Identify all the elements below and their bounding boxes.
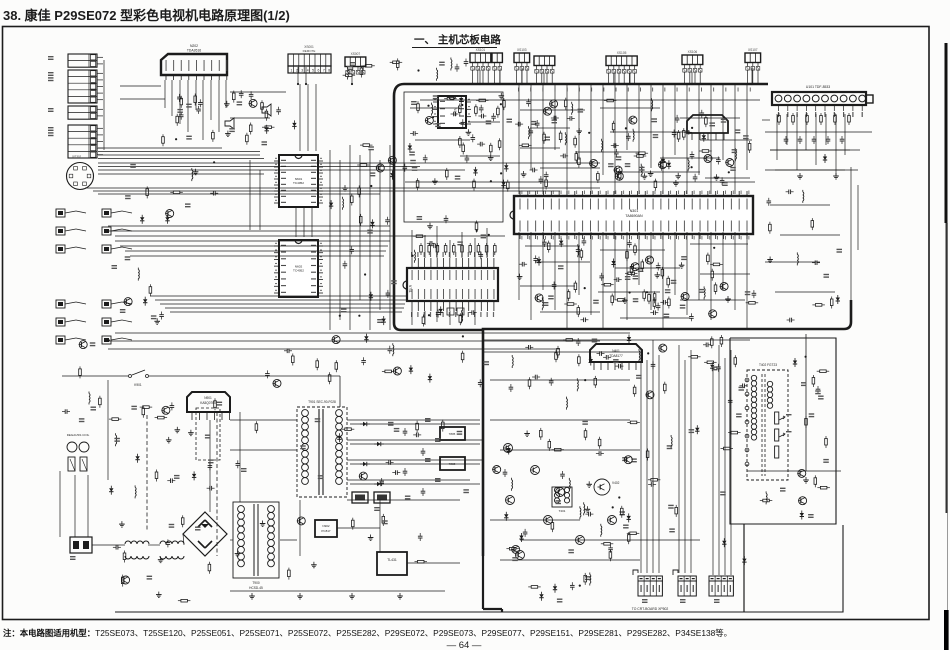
- resistor: [442, 420, 444, 423]
- capacitor: [532, 376, 535, 378]
- resistor: [699, 150, 702, 152]
- resistor: [654, 291, 656, 294]
- resistor: [578, 156, 580, 159]
- ground: [656, 272, 658, 275]
- capacitor: [660, 301, 663, 303]
- resistor: [597, 171, 599, 174]
- resistor: [170, 191, 173, 193]
- resistor: [182, 515, 184, 518]
- value label: [433, 95, 439, 96]
- transistor: [624, 456, 632, 464]
- capacitor: [786, 191, 789, 193]
- value label: [120, 309, 126, 310]
- wire: [164, 80, 166, 108]
- inductor: [687, 158, 689, 160]
- value label: [824, 274, 830, 275]
- resistor: [831, 297, 833, 300]
- junction: [579, 585, 581, 587]
- value label: [652, 118, 658, 119]
- capacitor: [691, 151, 693, 154]
- diode: [110, 486, 112, 489]
- svg-text:TO CRT-BOARD XP502: TO CRT-BOARD XP502: [632, 607, 669, 611]
- capacitor: [567, 117, 570, 119]
- resistor: [246, 133, 248, 136]
- junction: [521, 83, 523, 85]
- connector XS007 4pin: [345, 57, 366, 67]
- resistor: [459, 104, 461, 107]
- junction: [488, 234, 490, 236]
- wire: [698, 232, 700, 300]
- main board outline bottom right: [483, 300, 851, 556]
- transistor: [273, 379, 281, 387]
- wire: [483, 351, 640, 353]
- value label: [631, 458, 637, 459]
- wire: [530, 84, 532, 170]
- connector XS103 3pin: [514, 53, 530, 63]
- capacitor: [528, 99, 530, 102]
- capacitor: [62, 411, 65, 413]
- value label: [318, 475, 324, 476]
- wire XS106 drops: [684, 72, 686, 85]
- resistor CPU pull-up row: [453, 243, 455, 246]
- transistor: [646, 391, 654, 399]
- resistor: [462, 351, 464, 354]
- resistor: [162, 134, 164, 137]
- resistor: [667, 276, 669, 279]
- value label: [370, 172, 376, 173]
- value label: [368, 146, 374, 147]
- value label: [669, 528, 675, 529]
- wire: [115, 235, 505, 237]
- resistor: [563, 339, 566, 341]
- resistor: [360, 144, 363, 146]
- capacitor: [207, 487, 210, 489]
- inductor: [734, 148, 736, 150]
- inductor: [600, 524, 602, 526]
- capacitor: [519, 263, 522, 265]
- diode: [554, 584, 556, 587]
- resistor CPU pull-up row: [420, 243, 422, 246]
- wire: [98, 154, 260, 156]
- value label: [531, 121, 537, 122]
- value label: [486, 120, 492, 121]
- connector XS002 video: [68, 54, 97, 67]
- resistor: [627, 532, 630, 534]
- resistor hv bleeder: [805, 416, 807, 419]
- capacitor: [525, 346, 528, 348]
- wire: [347, 419, 480, 421]
- resistor: [634, 243, 636, 246]
- wire: [98, 169, 420, 171]
- resistor: [262, 126, 265, 128]
- resistor: [255, 421, 257, 424]
- resistor: [678, 130, 680, 133]
- ground: [769, 257, 771, 260]
- wire: [170, 311, 402, 313]
- diode: [837, 295, 839, 298]
- capacitor: [684, 131, 687, 133]
- resistor: [476, 99, 479, 101]
- wire: [230, 539, 233, 541]
- value label: [730, 167, 736, 168]
- wire: [225, 80, 227, 108]
- capacitor: [551, 117, 554, 119]
- wire: [108, 340, 600, 342]
- value label: [721, 119, 727, 120]
- svg-text:REMOTE: REMOTE: [303, 49, 316, 53]
- transistor: [726, 159, 734, 167]
- capacitor secondary filter: [422, 488, 424, 491]
- value label: [410, 160, 416, 161]
- ic N102 8pin: [438, 96, 466, 128]
- diode: [167, 215, 169, 218]
- capacitor: [445, 215, 447, 218]
- inductor: [342, 197, 344, 199]
- value label: [205, 435, 211, 436]
- wire: [369, 150, 371, 330]
- capacitor: [535, 255, 537, 258]
- resistor: [178, 600, 181, 602]
- value label: [367, 230, 373, 231]
- transistor: [124, 298, 132, 306]
- ground: [526, 431, 528, 434]
- diode secondary rectifier: [360, 423, 363, 425]
- value label: [736, 413, 742, 414]
- ground: [467, 129, 469, 132]
- resistor: [265, 109, 267, 112]
- capacitor: [729, 397, 731, 400]
- capacitor: [431, 245, 434, 247]
- svg-text:XS107: XS107: [748, 48, 758, 52]
- power switch K901: [129, 375, 132, 378]
- capacitor: [601, 273, 603, 276]
- resistor: [79, 366, 81, 369]
- left connector labels 1: [48, 72, 54, 73]
- diode: [628, 335, 630, 338]
- value label: [613, 359, 619, 360]
- capacitor: [180, 112, 182, 115]
- wire: [765, 261, 820, 263]
- wire: [230, 449, 297, 451]
- value label: [177, 109, 183, 110]
- resistor: [397, 58, 399, 61]
- wire: [686, 232, 688, 315]
- svg-text:TA8690AN: TA8690AN: [625, 214, 643, 218]
- value label: [130, 164, 136, 165]
- resistor: [99, 396, 101, 399]
- wire: [770, 149, 850, 151]
- wire: [535, 261, 590, 263]
- diode: [475, 167, 477, 170]
- wire: [379, 160, 381, 310]
- resistor: [580, 248, 582, 251]
- wire: [684, 360, 686, 573]
- speaker connector group 4: [102, 300, 111, 308]
- crt section divider: [743, 524, 745, 612]
- diode: [505, 163, 507, 166]
- ground: [650, 171, 652, 174]
- resistor: [721, 448, 724, 450]
- diode: [723, 538, 725, 541]
- wire: [115, 240, 390, 242]
- value label: [417, 216, 423, 217]
- wire tuner bus 3: [765, 169, 858, 171]
- junction: [479, 83, 481, 85]
- value label: [837, 249, 843, 250]
- svg-text:38. 康佳 P29SE072 型彩色电视机电路原理图(1/: 38. 康佳 P29SE072 型彩色电视机电路原理图(1/2): [3, 8, 290, 23]
- resistor tuner pull-up: [820, 113, 822, 116]
- capacitor tuner bypass: [785, 136, 787, 139]
- value label: [217, 402, 223, 403]
- capacitor: [703, 344, 706, 346]
- value label: [457, 431, 463, 432]
- capacitor: [424, 155, 426, 158]
- resistor: [343, 74, 346, 76]
- value label: [633, 298, 639, 299]
- resistor: [417, 101, 419, 104]
- wire: [722, 84, 724, 160]
- transistor: [535, 294, 543, 302]
- transistor video amp: [506, 496, 515, 505]
- ground: [677, 173, 679, 176]
- wire: [239, 412, 241, 502]
- wire: [424, 235, 426, 258]
- transistor: [799, 497, 807, 505]
- transistor: [249, 99, 257, 107]
- diode: [703, 133, 705, 136]
- value label: [411, 101, 417, 102]
- junction: [297, 83, 299, 85]
- ground: [429, 223, 431, 226]
- wire: [311, 207, 313, 237]
- junction: [500, 103, 502, 105]
- wire: [461, 232, 463, 258]
- wire: [130, 255, 384, 257]
- diode: [628, 513, 630, 516]
- resistor: [720, 335, 722, 338]
- value label: [382, 520, 388, 521]
- resistor: [634, 155, 637, 157]
- ground: [519, 274, 521, 277]
- wire: [171, 80, 173, 116]
- capacitor: [614, 279, 617, 281]
- resistor: [176, 114, 178, 117]
- wire: [530, 232, 532, 320]
- capacitor: [597, 353, 600, 355]
- resistor: [728, 432, 731, 434]
- junction: [476, 230, 478, 232]
- wire: [578, 232, 580, 295]
- svg-text:TL431: TL431: [387, 558, 397, 562]
- wire: [525, 245, 580, 247]
- inductor: [88, 392, 90, 394]
- ground: [227, 131, 229, 134]
- wire XS101 drops: [472, 70, 474, 85]
- ground: [158, 592, 160, 595]
- wire: [249, 160, 251, 230]
- diode: [141, 215, 143, 218]
- wire: [705, 177, 750, 179]
- transistor: [704, 155, 712, 163]
- capacitor: [673, 130, 675, 133]
- value label: [125, 256, 131, 257]
- junction: [728, 171, 730, 173]
- diode: [508, 446, 510, 449]
- connector XP501: [638, 576, 662, 581]
- diode: [541, 592, 543, 595]
- wire: [542, 232, 544, 290]
- capacitor: [718, 364, 720, 367]
- capacitor tuner bypass: [799, 136, 801, 139]
- wire: [148, 544, 160, 546]
- wire secondary rail: [350, 443, 480, 445]
- resistor: [619, 169, 621, 172]
- speaker connector group 1: [56, 209, 65, 217]
- resistor: [705, 115, 707, 118]
- wire: [165, 307, 404, 309]
- resistor: [413, 235, 416, 237]
- junction: [213, 161, 215, 163]
- wire: [359, 155, 361, 300]
- value label: [131, 406, 137, 407]
- capacitor: [451, 113, 454, 115]
- svg-text:1: 1: [291, 69, 293, 73]
- wire: [474, 238, 476, 258]
- junction: [543, 83, 545, 85]
- wire: [405, 181, 755, 183]
- capacitor: [603, 356, 606, 358]
- diode: [668, 160, 670, 163]
- wire: [602, 84, 604, 175]
- transistor: [332, 336, 340, 344]
- wire: [115, 332, 630, 334]
- ac connector XS901: [70, 537, 92, 553]
- diode: [429, 374, 431, 377]
- junction: [584, 287, 586, 289]
- wire: [125, 250, 386, 252]
- resistor CPU pull-up row: [469, 243, 471, 246]
- diode tuner agc: [824, 154, 826, 157]
- wire: [98, 193, 380, 195]
- diode damper VD402: [794, 358, 796, 361]
- mcu pin label: [455, 252, 456, 257]
- optocoupler N902 PC817: [315, 520, 337, 537]
- wire: [520, 285, 575, 287]
- wire: [107, 380, 109, 480]
- main board outline left: [394, 96, 483, 330]
- ground: [370, 535, 372, 538]
- value label: [815, 390, 821, 391]
- diode: [370, 292, 372, 295]
- capacitor: [178, 94, 180, 97]
- wire: [620, 317, 690, 319]
- diode: [144, 297, 146, 300]
- inductor: [541, 297, 543, 299]
- resistor: [543, 132, 545, 135]
- wire: [690, 243, 748, 245]
- capacitor: [611, 145, 614, 147]
- wire: [98, 162, 600, 164]
- resistor: [560, 131, 562, 134]
- value label: [112, 265, 118, 266]
- connector XS105 6pin: [606, 56, 637, 66]
- ground: [523, 171, 525, 174]
- wire: [92, 544, 125, 546]
- resistor CPU pull-up row: [445, 243, 447, 246]
- scan black bar right edge: [945, 43, 948, 223]
- resistor: [417, 178, 419, 181]
- ground: [121, 521, 123, 524]
- ground: [168, 437, 170, 440]
- resistor: [528, 586, 531, 588]
- connector XS001 7pin: [288, 54, 331, 66]
- svg-text:HCSD-45: HCSD-45: [249, 586, 263, 590]
- transistor: [798, 469, 806, 477]
- resistor: [557, 346, 559, 349]
- svg-text:TDA2616: TDA2616: [187, 49, 201, 53]
- diode: [696, 425, 698, 428]
- wire: [500, 559, 640, 561]
- ground: [344, 185, 346, 188]
- value label: [667, 445, 673, 446]
- resistor: [360, 214, 362, 217]
- wire: [103, 60, 105, 150]
- resistor: [335, 360, 337, 363]
- capacitor: [413, 434, 416, 436]
- resistor: [634, 385, 636, 388]
- wire: [490, 419, 630, 421]
- wire: [734, 84, 736, 194]
- op-amp N202 TDA2616: [161, 54, 227, 75]
- diode: [338, 433, 340, 436]
- wire: [543, 73, 545, 84]
- svg-text:T402 FGT23: T402 FGT23: [759, 363, 777, 367]
- capacitor: [344, 261, 346, 264]
- wire: [108, 348, 560, 350]
- wire: [449, 240, 451, 258]
- value label: [809, 413, 815, 414]
- mcu pin label: [474, 252, 475, 257]
- mcu pin label: [430, 252, 431, 257]
- wire: [468, 121, 500, 123]
- capacitor: [392, 472, 395, 474]
- resistor tuner pull-up: [792, 113, 794, 116]
- capacitor: [657, 263, 659, 266]
- wire: [410, 107, 460, 109]
- resistor: [109, 418, 112, 420]
- wire: [780, 234, 840, 236]
- inductor: [765, 491, 767, 493]
- value label: [147, 576, 153, 577]
- wire tuner bus 1: [765, 131, 872, 133]
- diode: [743, 556, 745, 559]
- capacitor: [284, 350, 287, 352]
- svg-text:N902: N902: [322, 524, 330, 528]
- wire: [638, 84, 640, 194]
- wire: [566, 232, 568, 329]
- inductor: [134, 485, 136, 487]
- transistor: [709, 310, 717, 318]
- wire: [850, 167, 852, 300]
- resistor tuner pull-up: [806, 113, 808, 116]
- value label: [568, 549, 574, 550]
- resistor: [555, 350, 557, 353]
- resistor: [316, 358, 318, 361]
- value label: [435, 438, 441, 439]
- ground: [644, 173, 646, 176]
- wire: [662, 84, 664, 194]
- resistor: [574, 136, 576, 139]
